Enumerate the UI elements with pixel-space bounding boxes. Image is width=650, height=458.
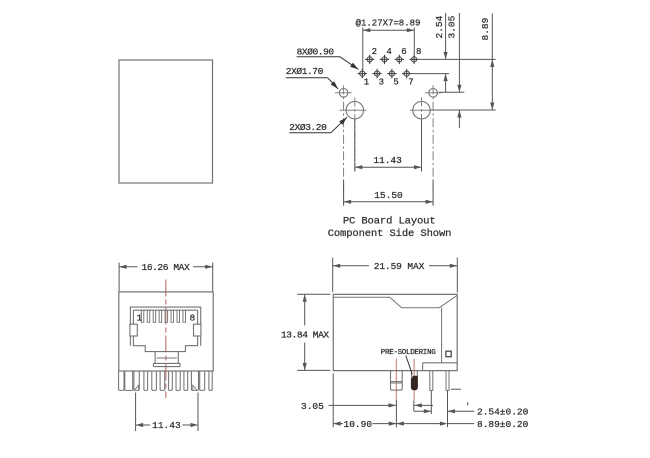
side view body outline bbox=[333, 294, 457, 370]
jack contacts 1-8 bbox=[141, 310, 185, 322]
svg-text:1: 1 bbox=[136, 312, 142, 323]
jack side notch left bbox=[130, 324, 137, 336]
side view inner vertical edge bbox=[441, 308, 443, 363]
centerline small right hole bbox=[432, 85, 434, 205]
svg-text:5: 5 bbox=[393, 78, 398, 88]
svg-text:1: 1 bbox=[364, 78, 369, 88]
pin 8 pad bbox=[409, 55, 418, 64]
plastic post bbox=[391, 371, 403, 391]
ref line big holes bbox=[431, 109, 496, 111]
svg-text:16.26 MAX: 16.26 MAX bbox=[142, 262, 190, 273]
svg-text:10.90: 10.90 bbox=[344, 419, 373, 430]
label 2X3.20 bbox=[289, 117, 347, 133]
front view legs bbox=[119, 371, 213, 390]
dimension 3.05 vertical bbox=[447, 13, 462, 128]
svg-text:3.05: 3.05 bbox=[301, 401, 324, 412]
side view pcb ledge bbox=[423, 363, 458, 371]
jack side notch right bbox=[194, 324, 201, 336]
svg-text:3: 3 bbox=[379, 78, 384, 88]
svg-text:2.54: 2.54 bbox=[434, 15, 445, 38]
svg-text:8: 8 bbox=[416, 47, 421, 57]
dimension 1.27X7=8.89 lines bbox=[363, 28, 415, 71]
thin pin 2 bbox=[446, 371, 449, 391]
dimension 11.43 pcb bbox=[355, 120, 422, 172]
label 2X1.70 bbox=[286, 66, 338, 89]
svg-text:8.89: 8.89 bbox=[480, 17, 491, 40]
hole big right (3.20) bbox=[410, 102, 437, 119]
svg-text:3.05: 3.05 bbox=[447, 15, 458, 38]
ref line small holes bbox=[439, 91, 464, 93]
svg-text:PC Board Layout: PC Board Layout bbox=[343, 216, 436, 228]
dimension 3.05 side bbox=[301, 401, 433, 412]
front view centerline (red) bbox=[165, 280, 167, 399]
centerline big right hole bbox=[421, 98, 423, 172]
svg-text:2: 2 bbox=[372, 47, 377, 57]
pin 5 pad bbox=[387, 69, 396, 78]
svg-text:PRE-SOLDERING: PRE-SOLDERING bbox=[381, 349, 436, 357]
pre-soldering pin (dark) bbox=[411, 371, 417, 390]
centerline big left hole bbox=[354, 98, 356, 172]
side view centerline presolder pin (red) bbox=[413, 359, 415, 401]
side-view blank rectangle bbox=[119, 60, 213, 183]
dimension 10.90 bbox=[333, 419, 396, 430]
svg-text:2.54±0.20: 2.54±0.20 bbox=[477, 407, 529, 418]
label 8X0.90 bbox=[297, 46, 359, 69]
front view body outline bbox=[119, 292, 213, 371]
jack latch slot bbox=[153, 352, 180, 367]
pin 1 pad bbox=[358, 69, 367, 78]
dimension 2.54±0.20 bbox=[414, 402, 529, 418]
thin pin 1 bbox=[430, 371, 433, 391]
svg-text:13.84 MAX: 13.84 MAX bbox=[281, 330, 329, 341]
pin 6 pad bbox=[395, 55, 404, 64]
svg-text:Component Side Shown: Component Side Shown bbox=[328, 228, 452, 240]
svg-text:2XØ1.70: 2XØ1.70 bbox=[286, 66, 324, 77]
svg-text:11.43: 11.43 bbox=[152, 420, 181, 431]
svg-text:15.50: 15.50 bbox=[374, 190, 403, 201]
svg-text:4: 4 bbox=[386, 47, 391, 57]
hole big left (3.20) bbox=[339, 102, 366, 119]
side view centerline post (red) bbox=[395, 359, 397, 401]
dimension 15.50 pcb bbox=[344, 180, 434, 206]
tick right of pin 2 bbox=[451, 388, 461, 390]
pin 4 pad bbox=[380, 55, 389, 64]
hole small left (1.70) bbox=[335, 89, 352, 98]
svg-text:6: 6 bbox=[401, 47, 406, 57]
jack opening inner profile bbox=[133, 310, 197, 351]
dimension 8.89 vertical bbox=[480, 14, 494, 111]
svg-text:8: 8 bbox=[189, 312, 195, 323]
dimension 2.54 vertical bbox=[434, 13, 448, 92]
svg-text:@1.27X7=8.89: @1.27X7=8.89 bbox=[356, 19, 421, 29]
centerline small left hole bbox=[343, 85, 345, 205]
svg-text:11.43: 11.43 bbox=[373, 155, 402, 166]
jack opening outer line bbox=[130, 307, 200, 346]
dimension 13.84 MAX bbox=[281, 294, 330, 370]
label PRE-SOLDERING bbox=[381, 349, 436, 374]
pin 7 pad bbox=[402, 69, 411, 78]
dimension 8.89±0.20 bbox=[396, 419, 528, 430]
pin 2 pad bbox=[365, 55, 374, 64]
side view top fold/bevel bbox=[333, 296, 457, 308]
ref line pin bottom row bbox=[411, 73, 449, 75]
svg-text:7: 7 bbox=[408, 78, 413, 88]
svg-text:2XØ3.20: 2XØ3.20 bbox=[289, 122, 327, 133]
pin 3 pad bbox=[372, 69, 381, 78]
svg-text:8.89±0.20: 8.89±0.20 bbox=[477, 419, 529, 430]
dimension 16.26 MAX bbox=[119, 262, 213, 291]
side view small square hole bbox=[446, 351, 451, 357]
ref line pin top row bbox=[419, 58, 496, 60]
dimension 21.59 MAX bbox=[333, 258, 458, 293]
extension lines bottom bbox=[333, 374, 447, 428]
dimension 11.43 front bbox=[136, 393, 198, 432]
svg-text:21.59 MAX: 21.59 MAX bbox=[374, 261, 425, 272]
svg-text:8XØ0.90: 8XØ0.90 bbox=[297, 46, 335, 57]
hole small right (1.70) bbox=[425, 89, 442, 98]
